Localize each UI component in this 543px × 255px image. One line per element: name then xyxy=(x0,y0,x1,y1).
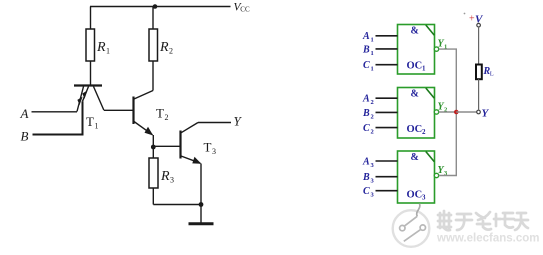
svg-text:&: & xyxy=(411,152,419,163)
wire input B3 xyxy=(376,176,398,178)
ground xyxy=(189,222,214,225)
wire Y3 to bus xyxy=(439,112,457,176)
svg-text:B: B xyxy=(362,172,370,183)
svg-text:B: B xyxy=(362,108,370,119)
svg-text:2: 2 xyxy=(169,47,173,56)
wire input A3 xyxy=(376,160,398,162)
transistor T3 xyxy=(181,123,202,164)
wire T3 collector to Y xyxy=(198,122,231,124)
resistor R2 xyxy=(149,29,158,61)
wire T1 collector to T2 base xyxy=(104,109,134,111)
label Vcc xyxy=(234,1,250,13)
wire ground stem xyxy=(200,205,202,223)
svg-text:1: 1 xyxy=(95,122,99,131)
node ground junction xyxy=(199,202,204,207)
label R2 xyxy=(159,40,173,56)
svg-text:Y: Y xyxy=(234,114,243,129)
svg-text:OC: OC xyxy=(407,61,423,72)
svg-text:C: C xyxy=(363,123,370,134)
node T2 emitter junction xyxy=(151,145,156,150)
label T3 xyxy=(204,140,217,157)
label B1 xyxy=(362,44,374,57)
svg-text:3: 3 xyxy=(170,176,174,185)
resistor R1 xyxy=(86,29,95,61)
watermark Chinese text strokes xyxy=(438,211,528,230)
node Y terminal xyxy=(477,110,481,114)
svg-text:C: C xyxy=(363,60,370,71)
label B2 xyxy=(362,108,374,121)
label R3 xyxy=(160,169,174,185)
wire R3 bottom stem xyxy=(152,188,154,205)
svg-text:3: 3 xyxy=(422,193,426,201)
svg-text:CC: CC xyxy=(240,6,250,14)
svg-text:Y: Y xyxy=(482,108,490,120)
wire RL to Y terminal xyxy=(478,79,480,110)
svg-text:2: 2 xyxy=(422,128,426,136)
wire input C3 xyxy=(376,190,398,192)
transistor T1 (multi-emitter) xyxy=(74,86,104,112)
svg-text:R: R xyxy=(159,40,169,55)
svg-text:OC: OC xyxy=(407,124,423,135)
svg-text:B: B xyxy=(21,129,29,144)
svg-text:2: 2 xyxy=(371,113,374,120)
svg-text:T: T xyxy=(86,114,94,129)
svg-text:1: 1 xyxy=(371,50,374,57)
wire Vcc top rail xyxy=(90,6,231,8)
svg-text:1: 1 xyxy=(106,47,110,56)
svg-text:3: 3 xyxy=(371,178,375,185)
label C2 xyxy=(363,123,374,136)
label Y3 xyxy=(438,165,449,177)
wire input A2 xyxy=(376,97,398,99)
svg-text:R: R xyxy=(160,169,170,184)
wire input A xyxy=(32,111,78,113)
label RL xyxy=(483,66,494,78)
node rail junction xyxy=(153,4,158,9)
wire R3 top stem xyxy=(152,147,154,158)
wire input B2 xyxy=(376,111,398,113)
wire input A1 xyxy=(376,35,398,37)
label Y2 xyxy=(438,102,448,114)
label Y1 xyxy=(438,39,448,51)
svg-text:2: 2 xyxy=(165,113,169,122)
label A3 xyxy=(362,156,375,169)
wire T2 emitter stem xyxy=(152,135,154,147)
node wired-AND junction (red) xyxy=(454,110,459,115)
svg-text:B: B xyxy=(362,44,370,55)
svg-text:www.elecfans.com: www.elecfans.com xyxy=(436,233,539,245)
svg-text:2: 2 xyxy=(371,129,374,136)
gate OC3 xyxy=(398,151,439,203)
resistor RL xyxy=(476,65,482,80)
wire T3 emitter stem xyxy=(200,164,202,205)
svg-text:1: 1 xyxy=(422,65,426,73)
svg-text:3: 3 xyxy=(371,192,375,199)
wire input B xyxy=(33,101,83,134)
svg-text:T: T xyxy=(204,140,212,155)
svg-text:1: 1 xyxy=(371,37,374,44)
svg-text:3: 3 xyxy=(212,147,216,156)
stray dot artifact xyxy=(464,13,466,15)
wire +V to RL xyxy=(478,27,480,65)
wire R1 bottom stem to T1 base xyxy=(90,61,92,85)
svg-text:R: R xyxy=(96,40,106,55)
gate OC1 xyxy=(398,25,439,75)
transistor T2 xyxy=(134,91,154,136)
svg-text:A: A xyxy=(362,94,370,105)
label T2 xyxy=(156,106,169,123)
resistor R3 xyxy=(149,158,158,188)
svg-text:2: 2 xyxy=(371,99,374,106)
svg-text:A: A xyxy=(362,156,370,167)
label A1 xyxy=(362,31,374,44)
wire R3 to emitter node xyxy=(153,204,201,206)
label C3 xyxy=(363,186,375,199)
wire input C2 xyxy=(376,127,398,129)
svg-text:&: & xyxy=(411,26,419,37)
wire Y2 to bus xyxy=(439,111,457,113)
svg-text:V: V xyxy=(475,14,484,26)
gate OC2 xyxy=(398,88,439,139)
label +V xyxy=(469,14,484,26)
label A2 xyxy=(362,94,374,107)
svg-text:OC: OC xyxy=(407,190,423,201)
wire junction to T3 base xyxy=(153,145,180,147)
watermark logo xyxy=(393,204,430,247)
svg-text:1: 1 xyxy=(371,66,374,73)
wire R2 top stem xyxy=(152,7,154,30)
svg-text:A: A xyxy=(20,106,29,121)
svg-text:3: 3 xyxy=(371,162,375,169)
svg-text:C: C xyxy=(363,186,370,197)
svg-text:L: L xyxy=(490,71,494,78)
wire R2 bottom stem xyxy=(152,61,154,91)
label B3 xyxy=(362,172,375,185)
wire Y1 to bus xyxy=(439,49,457,112)
wire input B1 xyxy=(376,48,398,50)
node +V terminal xyxy=(477,23,481,27)
wire input C1 xyxy=(376,64,398,66)
wire R1 top stem xyxy=(90,7,92,30)
wire bus to Y terminal xyxy=(456,111,476,113)
label R1 xyxy=(96,40,110,56)
svg-text:T: T xyxy=(156,106,164,121)
label T1 xyxy=(86,114,99,131)
svg-text:A: A xyxy=(362,31,370,42)
label C1 xyxy=(363,60,374,73)
svg-text:&: & xyxy=(411,89,419,100)
